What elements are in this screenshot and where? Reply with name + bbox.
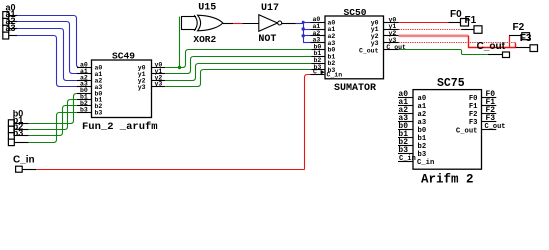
SC49 pin a2 (left)	[77, 80, 92, 82]
svg-text:SC75: SC75	[437, 77, 465, 90]
op gate XOR2 U15 input stubs	[181, 17, 183, 30]
junction a2	[302, 34, 305, 37]
svg-text:F1: F1	[469, 103, 478, 111]
svg-text:a3: a3	[6, 23, 16, 33]
wire a3	[9, 35, 17, 37]
wire a1	[9, 21, 17, 23]
svg-text:F3: F3	[520, 33, 532, 44]
svg-text:y3: y3	[389, 37, 397, 44]
svg-text:F0: F0	[450, 9, 462, 20]
SC75 pin b0 (left)	[398, 129, 413, 131]
SC75 pin F3 (right)	[482, 121, 497, 123]
SC49 pin y0 (right)	[152, 67, 166, 69]
SC50 pin y0 (right)	[384, 22, 399, 24]
svg-text:C_out: C_out	[485, 123, 506, 131]
svg-text:C_in: C_in	[399, 155, 416, 163]
svg-text:a0: a0	[418, 95, 427, 103]
SC75 pin b3 (left)	[398, 153, 413, 155]
port b3	[8, 139, 14, 145]
block SC50 SUMATOR	[325, 16, 384, 79]
svg-text:b3: b3	[95, 110, 103, 117]
wire a0	[9, 15, 17, 17]
SC75 pin a0 (left)	[398, 97, 413, 99]
wire net F2 (highlighted)	[399, 34, 469, 37]
port C_out	[503, 52, 510, 58]
port a3	[3, 32, 9, 39]
svg-text:C_in: C_in	[13, 154, 35, 165]
wire fanout to SUMATOR a2	[303, 35, 310, 37]
svg-text:b3: b3	[398, 146, 408, 155]
svg-text:y3: y3	[138, 84, 146, 91]
SC49 pin b0 (left)	[77, 93, 92, 95]
SC49 pin y3 (right)	[152, 86, 166, 88]
wire fanout to SUMATOR a1	[303, 29, 310, 31]
svg-text:C_out: C_out	[359, 47, 379, 54]
port a1	[3, 18, 9, 25]
SC49 pin a1 (left)	[77, 73, 92, 75]
port F1	[474, 26, 482, 34]
SC75 pin a2 (left)	[398, 113, 413, 115]
SC50 pin y3 (right)	[384, 42, 399, 44]
svg-text:C_in: C_in	[417, 159, 434, 167]
SC75 pin a1 (left)	[398, 105, 413, 107]
svg-text:Fun_2 _arufm: Fun_2 _arufm	[82, 121, 158, 133]
svg-text:y3: y3	[371, 40, 379, 47]
port b1	[8, 126, 14, 132]
block SC75 Arifm 2	[413, 90, 482, 170]
svg-text:XOR2: XOR2	[193, 34, 216, 45]
SC75 pin b1 (left)	[398, 137, 413, 139]
wire net F1	[399, 29, 462, 31]
port b2	[8, 133, 14, 139]
junction a0	[302, 21, 305, 24]
SC49 pin a0 (left)	[77, 67, 92, 69]
inverter NOT U17	[259, 15, 278, 32]
svg-text:b2: b2	[418, 143, 427, 151]
svg-text:a1: a1	[418, 103, 427, 111]
port a2	[3, 25, 9, 32]
svg-text:F3: F3	[486, 114, 496, 123]
svg-text:C_out: C_out	[456, 127, 478, 135]
SC49 pin b2 (left)	[77, 105, 92, 107]
SC75 pin F0 (right)	[482, 97, 497, 99]
svg-text:SC50: SC50	[344, 7, 367, 18]
svg-text:U15: U15	[198, 3, 216, 14]
SC75 pin b2 (left)	[398, 145, 413, 147]
op gate XOR2 U15 body	[194, 15, 197, 31]
wire fanout to SUMATOR a0	[303, 22, 310, 24]
svg-text:F2: F2	[513, 22, 525, 33]
port b0	[8, 120, 14, 126]
SC49 pin b1 (left)	[77, 99, 92, 101]
SC75 pin a3 (left)	[398, 121, 413, 123]
svg-text:F2: F2	[469, 111, 478, 119]
SC50 pin y1 (right)	[384, 29, 399, 31]
svg-text:C_out: C_out	[477, 41, 506, 52]
wire fanout to SUMATOR a3	[303, 42, 310, 44]
svg-text:b3: b3	[80, 106, 88, 113]
SC75 pin F2 (right)	[482, 113, 497, 115]
wire net F3	[399, 42, 516, 44]
svg-text:NOT: NOT	[258, 34, 276, 45]
wire net F0	[399, 22, 449, 24]
svg-text:b0: b0	[418, 127, 427, 135]
svg-text:C: C	[313, 68, 317, 75]
SC50 pin C_out (right)	[384, 49, 399, 51]
svg-text:a3: a3	[418, 119, 427, 127]
SC75 pin F1 (right)	[482, 105, 497, 107]
svg-text:SC49: SC49	[112, 51, 135, 62]
SC49 pin a3 (left)	[77, 86, 92, 88]
wire y0 to SUMATOR b0	[165, 50, 311, 68]
wire NOT out	[282, 23, 296, 25]
SC75 pin C_out (right)	[482, 129, 497, 131]
svg-text:U17: U17	[261, 3, 279, 14]
wire NOT out fanout vertical	[303, 22, 305, 42]
svg-text:a2: a2	[418, 111, 427, 119]
port F3	[530, 45, 538, 52]
svg-text:b1: b1	[418, 135, 427, 143]
svg-text:F1: F1	[465, 15, 477, 26]
svg-text:b3: b3	[13, 128, 24, 138]
svg-text:SUMATOR: SUMATOR	[334, 83, 376, 94]
wire b3	[14, 142, 28, 144]
port F2	[522, 33, 530, 40]
wire y1 to SUMATOR b1	[165, 57, 311, 74]
block SC49 (Fun_2 _arufm)	[92, 60, 152, 118]
svg-text:y3: y3	[155, 81, 163, 88]
junction a1	[302, 27, 305, 30]
wire y0 tap to XOR2 input	[179, 17, 181, 68]
wire XOR2 out	[223, 23, 233, 25]
wire b1	[14, 129, 28, 131]
SC50 pin y2 (right)	[384, 35, 399, 37]
wire y3 to SUMATOR b3	[165, 70, 311, 87]
SC75 pin C_in (left)	[398, 161, 413, 163]
SC49 pin b3 (left)	[77, 112, 92, 114]
svg-text:b3: b3	[418, 151, 427, 159]
SC49 pin y1 (right)	[152, 73, 166, 75]
SC49 pin y2 (right)	[152, 80, 166, 82]
wire b2	[14, 135, 28, 137]
port a0	[3, 12, 9, 19]
junction on y0 net	[178, 66, 181, 69]
svg-text:F0: F0	[469, 95, 478, 103]
svg-text:C_in: C_in	[327, 71, 343, 78]
wire b0	[14, 123, 28, 125]
wire a2	[9, 28, 17, 30]
port F0	[461, 19, 469, 27]
wire net C_out	[399, 50, 489, 55]
svg-text:F3: F3	[469, 119, 478, 127]
wire y2 to SUMATOR b2	[165, 64, 311, 81]
wire C_in (net C)	[22, 169, 36, 171]
svg-text:Arifm 2: Arifm 2	[421, 173, 474, 187]
